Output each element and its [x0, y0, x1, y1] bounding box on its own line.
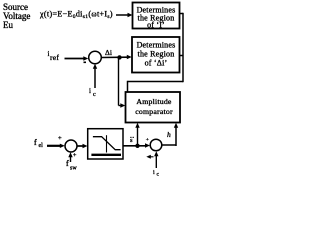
label ic (lower)	[153, 170, 160, 178]
box: Amplitude comparator	[126, 92, 181, 123]
svg-text:Eu: Eu	[3, 20, 13, 30]
svg-text:h: h	[167, 130, 171, 139]
box1: Determines the Region of 'I'	[133, 3, 180, 30]
label fel	[34, 138, 43, 149]
wire: junction up into amplitude comparator	[135, 123, 139, 146]
svg-text:+: +	[58, 135, 62, 142]
wire: box2 right stub to rail	[180, 55, 184, 57]
svg-text:Δi: Δi	[105, 48, 112, 57]
svg-text:i: i	[89, 87, 91, 95]
label fsw	[66, 159, 77, 172]
wire: box1 right stub to rail	[180, 13, 184, 15]
wire: multiplier output up into amplitude comparator	[162, 123, 178, 146]
wire: iref to summing junction	[65, 56, 89, 60]
label iref	[48, 50, 60, 62]
wire: rail drop into amplitude box top	[127, 81, 129, 93]
svg-text:comparator: comparator	[135, 107, 173, 116]
svg-text:the Region: the Region	[138, 50, 175, 59]
svg-text:of ‘Δi’: of ‘Δi’	[145, 59, 168, 68]
wire: fsw into S2 from below	[68, 152, 72, 162]
wire: Δi feedback down to amplitude comparator	[119, 58, 126, 108]
svg-text:c: c	[93, 92, 96, 98]
svg-text:+: +	[73, 153, 77, 159]
wire: rail vertical right	[182, 13, 184, 82]
wire: S2 to limiter	[77, 144, 88, 148]
svg-text:ref: ref	[50, 53, 59, 62]
svg-text:of ‘I’: of ‘I’	[147, 21, 165, 30]
title: Source Voltage Eu	[3, 2, 30, 30]
svg-text:Determines: Determines	[137, 41, 176, 50]
svg-text:s: s	[130, 137, 133, 144]
summing junction S1	[89, 51, 102, 64]
limiter block	[88, 129, 123, 159]
svg-text:i: i	[153, 170, 155, 176]
svg-text:c: c	[157, 172, 160, 177]
equation label	[39, 10, 113, 21]
small left arrow at multiplier	[146, 155, 153, 159]
svg-text:+: +	[146, 137, 149, 143]
wire: equation to box1	[116, 13, 133, 17]
wire: S1 output to box2	[101, 55, 132, 59]
multiplier circle	[150, 139, 162, 151]
wire: rail horizontal above amplitude box	[128, 81, 184, 83]
svg-text:f: f	[66, 159, 69, 168]
svg-text:sw: sw	[70, 166, 77, 172]
wire: ic into multiplier from below	[154, 151, 158, 168]
label ic (upper)	[89, 87, 96, 98]
svg-text:el: el	[39, 143, 44, 149]
node: junction after limiter	[135, 144, 139, 148]
svg-text:χ(t)=E−E0dis1(ωt+Is): χ(t)=E−E0dis1(ωt+Is)	[39, 10, 113, 21]
wire: fel to summing junction S2	[47, 144, 65, 148]
box2: Determines the Region of 'Δi'	[132, 37, 180, 73]
summing junction S2	[65, 140, 77, 152]
wire: limiter output to multiplier	[123, 143, 150, 147]
node: junction after Δi	[117, 55, 121, 59]
sign near iref input	[84, 62, 87, 64]
svg-text:f: f	[34, 138, 37, 147]
svg-text:Amplitude: Amplitude	[136, 97, 171, 106]
wire: ic into summing junction S1	[93, 64, 97, 88]
